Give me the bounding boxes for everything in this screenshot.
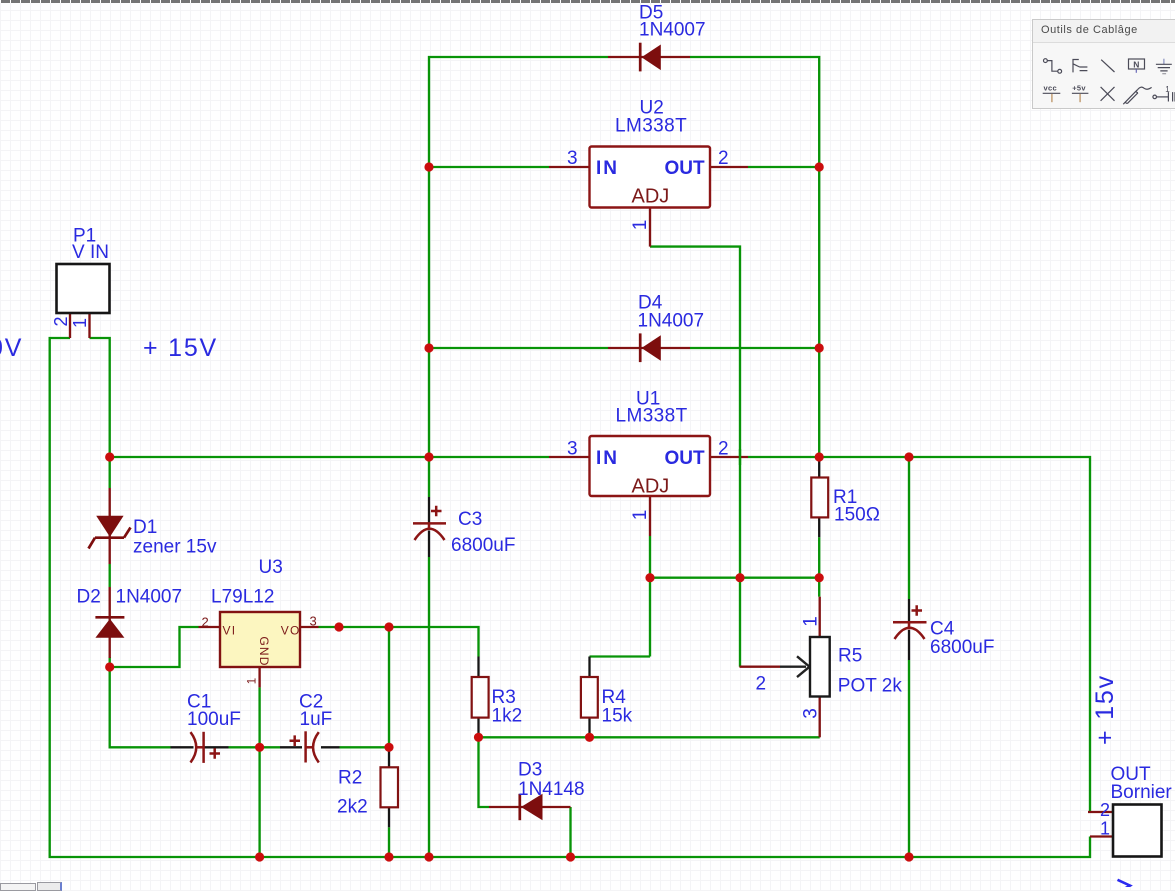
svg-text:LM338T: LM338T [616,406,688,427]
svg-text:1N4148: 1N4148 [518,779,585,800]
svg-text:2: 2 [202,615,209,630]
svg-text:D1: D1 [133,517,157,538]
svg-text:1: 1 [630,220,651,231]
svg-text:1N4007: 1N4007 [638,311,705,332]
svg-text:3: 3 [310,614,317,629]
svg-text:1: 1 [630,510,651,521]
svg-text:R5: R5 [838,646,862,667]
svg-text:0V: 0V [0,334,23,362]
svg-text:IN: IN [596,448,619,469]
svg-text:+ 15v: + 15v [1091,674,1119,745]
svg-text:ADJ: ADJ [632,476,670,498]
svg-text:1uF: 1uF [300,709,333,730]
svg-text:OUT: OUT [665,448,706,469]
svg-text:1N4007: 1N4007 [116,587,183,608]
svg-text:V IN: V IN [72,242,109,263]
svg-text:2k2: 2k2 [337,797,368,818]
svg-text:+ 15V: + 15V [143,334,218,362]
svg-text:2: 2 [51,316,71,326]
svg-text:150Ω: 150Ω [834,505,880,526]
svg-text:LM338T: LM338T [615,116,687,137]
svg-text:VI: VI [223,624,237,638]
svg-text:POT 2k: POT 2k [838,676,903,697]
svg-text:1k2: 1k2 [492,705,523,726]
svg-text:1: 1 [801,616,822,627]
svg-text:1: 1 [70,318,90,328]
svg-text:zener 15v: zener 15v [133,537,217,558]
svg-text:1: 1 [246,678,258,684]
svg-text:3: 3 [567,148,578,169]
svg-text:GND: GND [257,636,271,666]
svg-text:D2: D2 [77,587,101,608]
svg-text:2: 2 [718,439,729,460]
svg-text:1: 1 [1100,819,1110,839]
svg-text:VO: VO [281,624,301,638]
svg-text:IN: IN [596,158,619,179]
svg-text:C3: C3 [458,509,482,530]
svg-text:L79L12: L79L12 [211,587,274,608]
svg-text:OUT: OUT [665,158,706,179]
svg-text:100uF: 100uF [187,709,241,730]
svg-text:3: 3 [567,439,578,460]
svg-text:vcc: vcc [1044,84,1057,93]
svg-text:6800uF: 6800uF [451,535,515,556]
svg-text:ADJ: ADJ [632,186,670,208]
svg-text:3: 3 [801,708,822,719]
svg-text:N: N [1133,59,1139,69]
svg-text:R2: R2 [338,768,362,789]
svg-text:U3: U3 [259,557,283,578]
svg-text:2: 2 [756,674,767,695]
svg-text:2: 2 [718,148,729,169]
svg-text:+5v: +5v [1072,84,1086,93]
svg-text:1N4007: 1N4007 [639,20,706,41]
svg-text:1: 1 [1165,85,1170,94]
svg-text:6800uF: 6800uF [930,637,994,658]
svg-text:15k: 15k [602,705,633,726]
svg-text:2: 2 [1100,800,1110,820]
svg-text:Bornier: Bornier [1111,782,1173,803]
svg-text:D3: D3 [518,760,542,781]
